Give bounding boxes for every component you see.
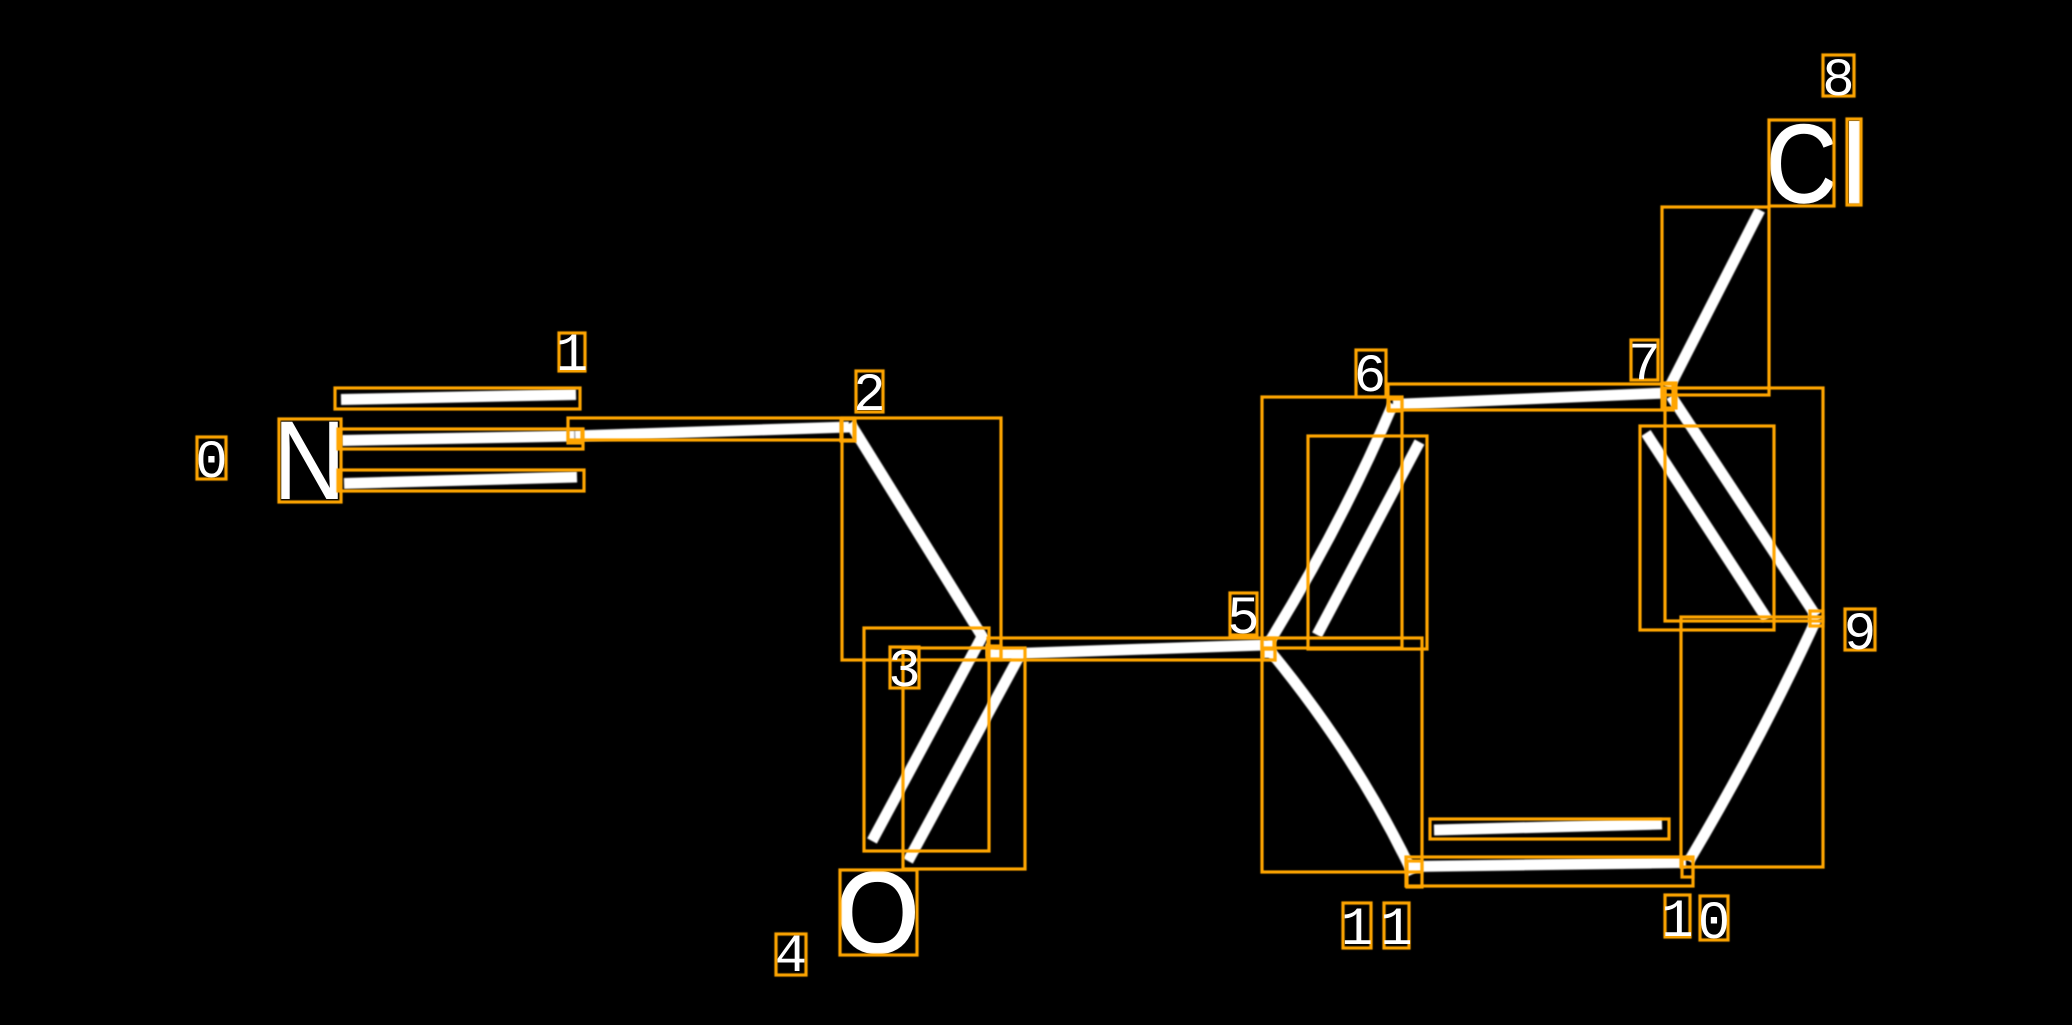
- svg-text:5: 5: [1227, 589, 1259, 650]
- box atom C5 lower: [1263, 649, 1275, 660]
- bond C10-C11 inner double line: [1434, 824, 1662, 830]
- svg-text:N: N: [273, 398, 346, 523]
- bond C5-C6 ring edge: [1270, 404, 1393, 641]
- svg-text:1: 1: [1341, 900, 1373, 961]
- box bond C3=O line A: [864, 628, 989, 851]
- box bond Cl-C7: [1662, 207, 1769, 395]
- bond Cl-C7: [1669, 210, 1760, 388]
- box label 3: [890, 647, 919, 688]
- bond C3=O line A: [872, 633, 984, 841]
- box atom C7: [1662, 383, 1676, 408]
- svg-text:0: 0: [195, 433, 227, 494]
- bond C3=O line B: [908, 653, 1021, 861]
- box atom Cl C: [1769, 120, 1834, 206]
- box bond C10-C11: [1406, 857, 1693, 886]
- box atom C11: [1407, 861, 1422, 887]
- svg-text:0: 0: [1698, 894, 1730, 955]
- box bond C9-C10: [1681, 617, 1823, 867]
- box bond C10-C11 inner: [1430, 819, 1669, 839]
- box atom N: [279, 419, 341, 502]
- bond C10-C11 ring edge: [1413, 863, 1686, 867]
- svg-text:1: 1: [556, 326, 588, 387]
- box label 7: [1631, 340, 1658, 380]
- box label 0: [197, 437, 226, 479]
- svg-text:9: 9: [1844, 605, 1876, 666]
- bond C6-C7: [1393, 393, 1666, 405]
- box label 4: [776, 934, 806, 975]
- box bond C6-C7: [1388, 384, 1673, 410]
- svg-text:1: 1: [1380, 900, 1412, 961]
- bond C3-C5: [988, 645, 1264, 655]
- bond N#C line bottom: [344, 477, 577, 484]
- bond C7-C9 ring edge: [1671, 396, 1816, 616]
- box atom C2: [841, 419, 855, 441]
- box atom C10: [1682, 859, 1693, 877]
- box label 10 digit 0: [1700, 896, 1728, 940]
- bond N#C line middle: [342, 436, 575, 441]
- box label 6: [1356, 350, 1386, 397]
- bond N#C line top: [341, 395, 576, 400]
- bond C5-C11: [1270, 651, 1413, 874]
- box label 1: [559, 333, 585, 371]
- svg-text:3: 3: [888, 642, 920, 703]
- box bond C3=O line B: [903, 648, 1025, 869]
- box atom C3: [987, 646, 1001, 659]
- box bond C3-C5: [988, 638, 1275, 660]
- bond C7-C9 inner double line: [1646, 433, 1767, 619]
- box bond C5-C6: [1262, 397, 1402, 648]
- bond C5-C6 inner double line: [1317, 442, 1420, 635]
- box label 9: [1845, 609, 1875, 650]
- node C3 junction caret: [986, 643, 997, 657]
- box bond N#C middle: [338, 429, 583, 449]
- box label 11 digit 1: [1343, 903, 1371, 948]
- box label 5: [1230, 593, 1257, 635]
- bond C2-C3: [850, 423, 985, 641]
- svg-text:7: 7: [1628, 335, 1660, 396]
- box bond N#C bottom: [338, 470, 584, 491]
- box atom C5 upper: [1262, 639, 1274, 649]
- box bond C7-C9: [1665, 388, 1823, 621]
- box bond C5-C6 inner: [1308, 436, 1427, 649]
- box bond C5-C11: [1262, 638, 1422, 872]
- box bond C7-C9 inner: [1640, 426, 1774, 630]
- box label 11 digit 2: [1384, 903, 1409, 948]
- box atom O: [840, 870, 917, 955]
- box atom C9: [1810, 611, 1823, 626]
- box label 2: [856, 371, 883, 412]
- box atom C6: [1389, 399, 1402, 411]
- box atom C1: [568, 429, 582, 443]
- box bond C2-C3: [842, 418, 1001, 660]
- box atom Cl l: [1847, 119, 1861, 205]
- svg-text:1: 1: [1661, 892, 1693, 953]
- box bond N#C top: [335, 388, 580, 409]
- box label 10 digit 1: [1665, 895, 1690, 937]
- box label 8: [1823, 55, 1854, 96]
- svg-text:8: 8: [1822, 51, 1854, 112]
- svg-text:4: 4: [775, 927, 807, 988]
- svg-text:2: 2: [853, 366, 885, 427]
- box bond C1-C2: [568, 418, 854, 440]
- svg-text:6: 6: [1354, 347, 1386, 408]
- bond C9-C10: [1689, 620, 1816, 861]
- node C9 junction tip: [1808, 611, 1822, 626]
- bond C1-C2: [575, 427, 849, 436]
- node C5 junction blob: [1261, 640, 1275, 658]
